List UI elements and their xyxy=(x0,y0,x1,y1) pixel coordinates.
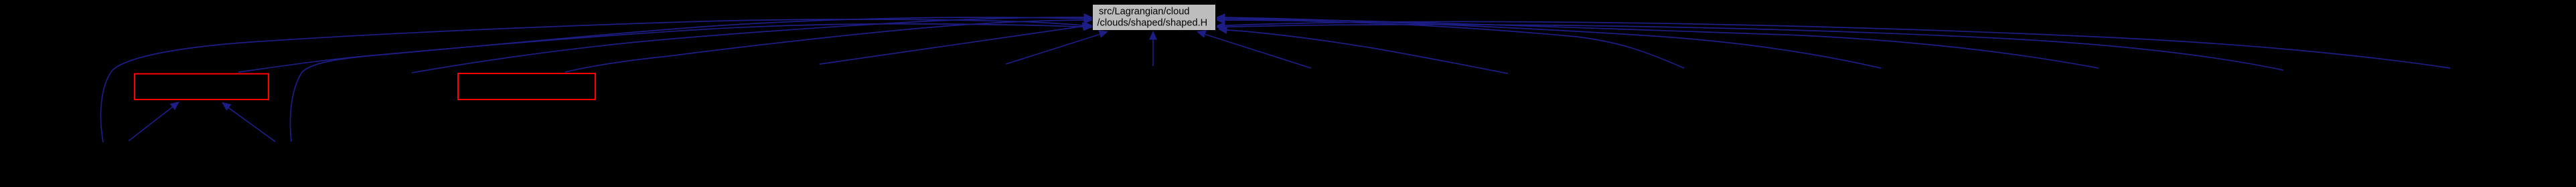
node shaped.H: central file node xyxy=(1093,5,1215,30)
wire edge-E10 (row2 node to shaped.H right corner) xyxy=(1227,30,1508,73)
wire edge-E8 (row2 node below to shaped.H, vertical) xyxy=(1152,39,1154,66)
wire edge-E9 (row2 node to shaped.H bottom-right) xyxy=(1205,35,1311,69)
wire arrow-A1 into R1 from row3 left node xyxy=(129,106,175,142)
wire edge-E13 (row2 node to shaped.H right) xyxy=(1225,19,2099,68)
wire edge-E6 (row2 tall node to shaped.H lower-left) xyxy=(820,26,1083,64)
node R1: truncated include node (red outline) xyxy=(135,74,269,100)
wire edge-E15 (far-right row2 node to shaped.H) xyxy=(1225,21,2450,68)
node R2: truncated include node (red outline) xyxy=(458,73,595,100)
wire edge-E3 (row3 node right of R1 to shaped.H, long arc) xyxy=(291,17,1085,142)
wire arrow-A2 into R1 from row3 right node xyxy=(226,106,275,142)
wire edge-E2 (red node R1 to shaped.H) xyxy=(238,24,1085,72)
wire edge-E7 (row2 node to shaped.H bottom-left) xyxy=(1006,35,1100,65)
wire edge-E5 (red node R2 to shaped.H) xyxy=(565,20,1085,72)
wire edge-E14 (row2 node to shaped.H right) xyxy=(1225,25,2283,70)
wire edge-E1 (far-left row3 node to shaped.H, long arc) xyxy=(101,19,1085,142)
wire edge-E12 (row2 node to shaped.H right) xyxy=(1225,17,1881,68)
wire edge-E4 (row2 node to shaped.H) xyxy=(412,17,1085,73)
svg-text:/clouds/shaped/shaped.H: /clouds/shaped/shaped.H xyxy=(1097,18,1208,29)
svg-text:src/Lagrangian/cloud: src/Lagrangian/cloud xyxy=(1099,7,1189,17)
wire edge-E11 (row2 node to shaped.H right) xyxy=(1225,20,1684,68)
